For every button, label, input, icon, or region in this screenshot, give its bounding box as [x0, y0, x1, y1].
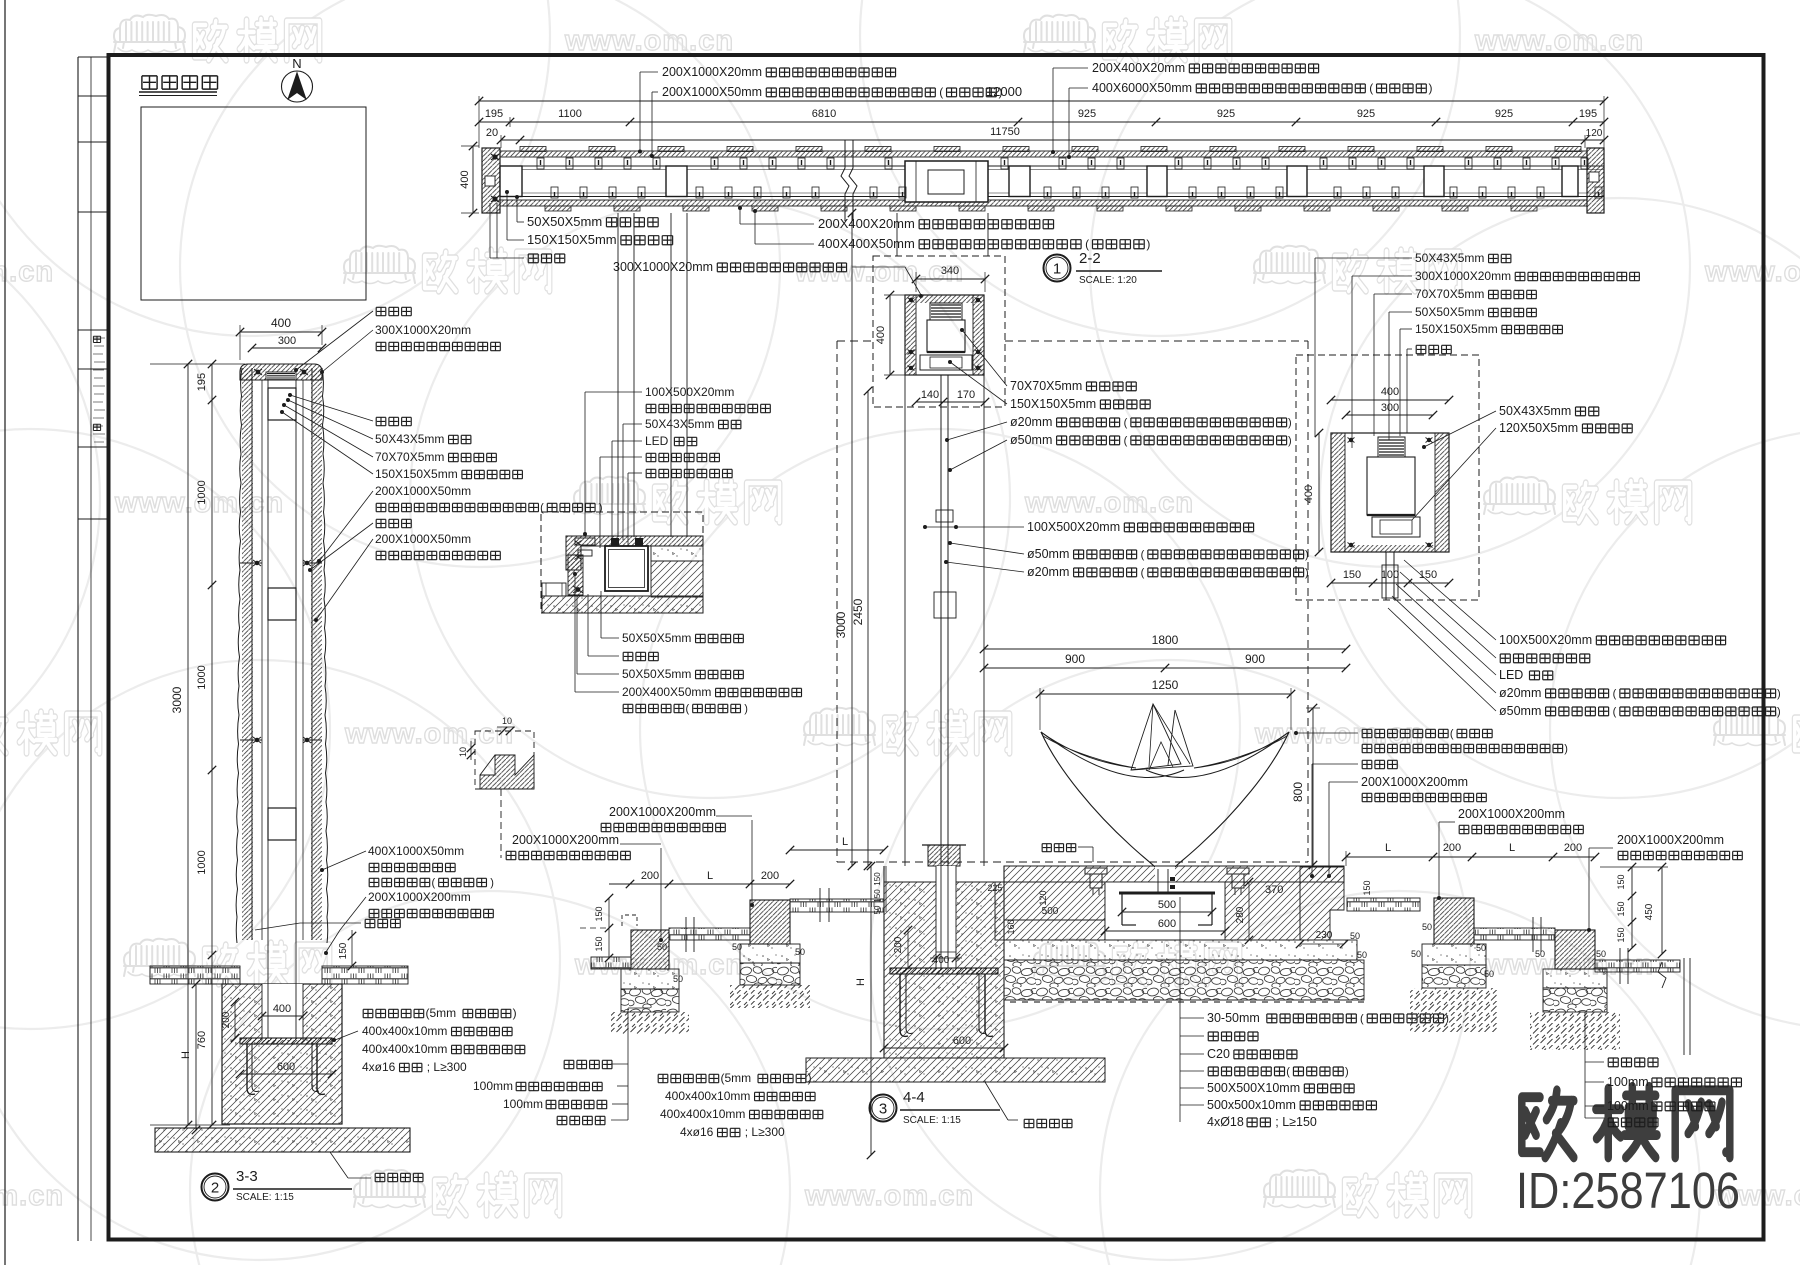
north arrow — [282, 71, 313, 102]
svg-text:160: 160 — [1006, 919, 1016, 934]
svg-text:(: ( — [1141, 567, 1145, 579]
label yumaijian — [1362, 760, 1397, 768]
svg-text:600: 600 — [953, 1035, 971, 1047]
svg-text:(: ( — [432, 877, 436, 889]
title suoyin pingmian — [142, 76, 218, 89]
dim 20 / 11750 / 120 — [501, 139, 1604, 141]
svg-text:LED: LED — [1499, 668, 1523, 682]
svg-text:300X1000X20mm: 300X1000X20mm — [1415, 269, 1511, 283]
svg-text:(: ( — [1124, 417, 1128, 429]
svg-text:150: 150 — [594, 906, 604, 921]
svg-text:150: 150 — [338, 942, 349, 959]
foundation bolts — [900, 974, 908, 1036]
svg-text:200X1000X200mm: 200X1000X200mm — [609, 805, 716, 819]
sculpture crane — [1131, 704, 1181, 770]
svg-text:400: 400 — [875, 326, 887, 344]
label 150X150X5mm below band — [506, 192, 508, 240]
wall lines from top band down to detail — [617, 213, 619, 537]
sculpture labels right — [1362, 729, 1448, 737]
wall band: anchor clips top row — [537, 158, 544, 169]
watermark logo r3k0 — [804, 708, 875, 746]
svg-text:200X1000X50mm: 200X1000X50mm — [375, 532, 471, 546]
svg-text:50: 50 — [673, 974, 683, 984]
svg-text:): ) — [999, 85, 1003, 99]
svg-text:300X1000X20mm: 300X1000X20mm — [613, 260, 713, 274]
watermark logo r1k1 — [1254, 246, 1325, 284]
svg-text:(: ( — [939, 85, 943, 99]
svg-text:150: 150 — [873, 872, 882, 886]
dim 340 — [916, 278, 985, 280]
right curbs dims 200/L/200 — [1346, 856, 1595, 858]
svg-text:2450: 2450 — [851, 598, 865, 625]
svg-text:(: ( — [686, 703, 690, 715]
right side label stack for column — [376, 307, 411, 315]
svg-text:(: ( — [1124, 435, 1128, 447]
svg-text:900: 900 — [1245, 652, 1265, 666]
svg-text:): ) — [1146, 237, 1150, 251]
svg-text:200X1000X200mm: 200X1000X200mm — [368, 890, 471, 904]
svg-text:200X1000X200mm: 200X1000X200mm — [512, 833, 619, 847]
watermark logo r3k1 — [1714, 708, 1785, 746]
joint detail dims — [497, 726, 515, 728]
svg-text:50: 50 — [1357, 950, 1367, 960]
title strip — [77, 57, 79, 1241]
detail concrete and stone right — [651, 546, 703, 561]
svg-text:(: ( — [1141, 549, 1145, 561]
svg-text:(5mm: (5mm — [426, 1006, 457, 1020]
svg-text:50X43X5mm: 50X43X5mm — [1415, 251, 1484, 265]
svg-text:www.om.cn: www.om.cn — [0, 256, 54, 288]
right detail pendant — [1385, 552, 1387, 600]
svg-text:150: 150 — [1616, 874, 1626, 889]
detail bolt left — [573, 586, 583, 593]
sculpture lotus — [1041, 732, 1136, 768]
svg-text:400: 400 — [1381, 386, 1399, 398]
svg-text:800: 800 — [1291, 782, 1305, 802]
svg-text:200X400X20mm: 200X400X20mm — [1092, 61, 1185, 75]
svg-text:925: 925 — [1217, 108, 1235, 120]
svg-text:150X150X5mm: 150X150X5mm — [375, 467, 458, 481]
svg-text:400: 400 — [933, 955, 950, 966]
svg-text:200X1000X200mm: 200X1000X200mm — [1361, 775, 1468, 789]
foundation dims — [936, 951, 956, 953]
terrace cobbles — [1004, 960, 1364, 1000]
planting soil label — [365, 919, 400, 927]
svg-text:www.om.cn: www.om.cn — [1704, 256, 1800, 288]
bubble 2 section 3-3 — [202, 1174, 229, 1201]
svg-text:50X43X5mm: 50X43X5mm — [375, 432, 444, 446]
right detail dims 400/300 — [1331, 399, 1449, 401]
cap lower tray — [920, 355, 972, 370]
cap inner box — [927, 320, 965, 352]
center foundation 4-4 — [884, 866, 1004, 1058]
svg-text:195: 195 — [1579, 108, 1597, 120]
label C20 — [1180, 1053, 1204, 1055]
svg-text:200X400X50mm: 200X400X50mm — [622, 685, 711, 699]
dim 1250 — [1040, 693, 1291, 695]
svg-text:3: 3 — [879, 1101, 887, 1118]
diku dingban label 4-4 — [985, 1082, 1008, 1120]
svg-text:100mm: 100mm — [1607, 1099, 1649, 1113]
svg-text:50: 50 — [732, 942, 742, 952]
svg-text:L: L — [707, 870, 713, 882]
column right rough stone strip — [311, 368, 313, 940]
svg-text:50: 50 — [1422, 922, 1432, 932]
wall band: right end cap — [1587, 148, 1604, 213]
svg-text:(: ( — [1613, 688, 1617, 700]
svg-text:): ) — [1777, 706, 1781, 718]
svg-text:150X150X5mm: 150X150X5mm — [1010, 397, 1096, 411]
svg-text:): ) — [1429, 81, 1433, 95]
svg-text:www.om.cn: www.om.cn — [344, 718, 514, 750]
terrace anchor pit — [1105, 882, 1225, 940]
ground paver bands beside column — [150, 966, 240, 984]
label 30-50mm — [1180, 1017, 1204, 1019]
svg-text:3000: 3000 — [170, 686, 184, 713]
svg-text:2: 2 — [211, 1180, 219, 1197]
right detail inner box — [1367, 457, 1415, 515]
svg-text:L: L — [1509, 842, 1515, 854]
detail leader fan — [584, 392, 586, 535]
right detail bottom leader fan — [1404, 560, 1496, 640]
svg-text:(: ( — [1613, 706, 1617, 718]
svg-text:230: 230 — [1316, 930, 1333, 941]
svg-text:11750: 11750 — [990, 126, 1020, 138]
svg-text:50: 50 — [1411, 949, 1421, 959]
mid curbs dims 200/L/200 — [609, 883, 790, 885]
dim 800 — [1312, 708, 1314, 865]
wall band: stone panel joints — [500, 166, 522, 197]
leader spine right — [1179, 897, 1181, 1122]
svg-text:): ) — [1288, 417, 1292, 429]
svg-text:ID:2587106: ID:2587106 — [1516, 1162, 1740, 1219]
mid paver between curbs — [669, 928, 750, 940]
svg-text:300X1000X20mm: 300X1000X20mm — [375, 323, 471, 337]
svg-text:200X1000X50mm: 200X1000X50mm — [375, 484, 471, 498]
svg-text:(: ( — [1450, 728, 1454, 740]
svg-text:760: 760 — [196, 1031, 208, 1049]
svg-text:925: 925 — [1078, 108, 1096, 120]
anchor base plate — [240, 1038, 332, 1044]
svg-text:200X1000X50mm: 200X1000X50mm — [662, 85, 762, 99]
svg-text:H: H — [180, 1051, 192, 1059]
svg-text:925: 925 — [1357, 108, 1375, 120]
center cap dashed box — [873, 256, 1005, 407]
svg-text:50X50X5mm: 50X50X5mm — [527, 214, 602, 229]
svg-text:www.om.cn: www.om.cn — [0, 1180, 64, 1212]
svg-text:(: ( — [1286, 1066, 1290, 1078]
svg-text:): ) — [1305, 567, 1309, 579]
terrace stone blocks — [995, 882, 1105, 940]
svg-text:400x400x10mm: 400x400x10mm — [665, 1089, 750, 1103]
svg-text:50X43X5mm: 50X43X5mm — [1499, 404, 1571, 418]
anchor J bolts — [247, 1044, 255, 1094]
svg-text:www.om.cn: www.om.cn — [1474, 25, 1644, 57]
mid curb block B — [750, 900, 790, 944]
svg-text:4xø16: 4xø16 — [362, 1060, 396, 1074]
svg-text:www.om.cn: www.om.cn — [564, 25, 734, 57]
svg-text:200: 200 — [1564, 842, 1582, 854]
svg-text:50X43X5mm: 50X43X5mm — [645, 417, 714, 431]
bottom slab 3-3 — [155, 1128, 410, 1152]
svg-text:50: 50 — [795, 947, 805, 957]
svg-text:400: 400 — [459, 170, 471, 188]
wall band: inner rails — [500, 165, 1604, 167]
label 400X6000X50mm top right — [1068, 88, 1070, 157]
H dim left — [195, 984, 197, 1130]
dims 400/300 over column — [240, 331, 322, 333]
index plan rectangle — [141, 107, 366, 300]
H dim center — [870, 866, 872, 1155]
label 50X50X5mm below band — [516, 196, 518, 222]
small level dims left of foundation — [885, 866, 887, 912]
watermark logo r2k0 — [574, 477, 645, 515]
diku dingban label — [375, 1173, 423, 1181]
stem into pit — [1157, 869, 1159, 893]
detail steel tube — [605, 546, 648, 591]
svg-text:70X70X5mm: 70X70X5mm — [375, 450, 444, 464]
right paver right — [1595, 960, 1680, 972]
center dims 3000/2450 — [851, 213, 853, 866]
svg-text:1000: 1000 — [196, 480, 208, 504]
svg-text:SCALE: 1:15: SCALE: 1:15 — [903, 1115, 961, 1126]
svg-text:925: 925 — [1495, 108, 1513, 120]
mid curb block A — [631, 930, 669, 969]
svg-text:400X400X50mm: 400X400X50mm — [818, 236, 915, 251]
detail bottom fixture left — [542, 583, 566, 596]
svg-text:400x400x10mm: 400x400x10mm — [660, 1107, 745, 1121]
pit dims — [1122, 911, 1212, 913]
svg-text:600: 600 — [277, 1061, 295, 1073]
right detail bottom hatch — [1345, 545, 1435, 552]
dashed drop from joint detail — [500, 789, 502, 858]
svg-text:140: 140 — [921, 389, 939, 401]
dim 1800 — [984, 648, 1346, 650]
watermark logo r2k1 — [1484, 477, 1555, 515]
wall band: center box cell — [905, 161, 988, 202]
big logo oumowang — [1522, 1087, 1730, 1158]
sculpture stem — [1157, 869, 1159, 893]
label steel support — [1180, 1070, 1204, 1072]
cap grill — [930, 303, 962, 320]
cap vert dim 400 — [889, 295, 891, 375]
svg-text:2-2: 2-2 — [1079, 250, 1101, 267]
watermark logo r5k0 — [354, 1170, 425, 1208]
svg-text:6810: 6810 — [812, 108, 836, 120]
wall band: left end cap — [482, 148, 500, 213]
svg-text:LED: LED — [645, 434, 669, 448]
bottom material labels mid — [564, 1060, 612, 1068]
right detail leader fan — [1315, 257, 1412, 259]
svg-text:3-3: 3-3 — [236, 1168, 258, 1185]
foundation dims — [262, 1015, 303, 1017]
svg-text:100X500X20mm: 100X500X20mm — [1027, 520, 1120, 534]
fixing labels bottom left — [363, 1009, 423, 1017]
label 500X500X10mm plate — [1180, 1087, 1204, 1089]
svg-text:100: 100 — [1381, 569, 1399, 581]
label 200X400X20mm below band — [739, 207, 741, 224]
dim row 195/1100/6810/925s — [479, 121, 1604, 123]
detail bottom slab — [542, 596, 703, 613]
svg-text:200: 200 — [1443, 842, 1461, 854]
pole below cap — [904, 375, 906, 866]
right curb block 1 — [1434, 898, 1474, 944]
svg-text:500X500X10mm: 500X500X10mm — [1207, 1081, 1300, 1095]
svg-text:10: 10 — [502, 716, 512, 726]
svg-text:): ) — [490, 877, 494, 889]
right detail box — [1331, 433, 1449, 552]
column left rough stone strip — [251, 368, 253, 940]
right detail grill — [1378, 437, 1405, 457]
label 200X1000X50mm top — [651, 92, 653, 156]
svg-text:150: 150 — [1616, 901, 1626, 916]
svg-text:150X150X5mm: 150X150X5mm — [1415, 322, 1498, 336]
detail left bracket parts — [575, 538, 595, 545]
svg-text:70X70X5mm: 70X70X5mm — [1415, 287, 1484, 301]
svg-text:10: 10 — [458, 747, 468, 757]
svg-text:50: 50 — [1476, 943, 1486, 953]
svg-text:150: 150 — [1362, 880, 1372, 895]
svg-text:50: 50 — [1535, 949, 1545, 959]
page trim line — [4, 0, 6, 1265]
bubble 1 section 2-2 — [1044, 255, 1071, 282]
svg-text:150X150X5mm: 150X150X5mm — [527, 232, 617, 247]
svg-text:150: 150 — [594, 936, 604, 951]
right curb block 2 — [1555, 930, 1595, 969]
svg-text:340: 340 — [941, 265, 959, 277]
svg-text:100X500X20mm: 100X500X20mm — [645, 385, 734, 399]
wall band: top rough stone strip — [500, 151, 1587, 157]
wall cap detail dashed box — [541, 512, 703, 613]
watermark logo r0k1 — [1024, 15, 1095, 53]
svg-text:195: 195 — [485, 108, 503, 120]
svg-text:50X50X5mm: 50X50X5mm — [1415, 305, 1484, 319]
svg-text:120X50X5mm: 120X50X5mm — [1499, 421, 1578, 435]
svg-text:(: ( — [1085, 237, 1089, 251]
svg-text:H: H — [855, 978, 867, 986]
wall left cap fixing marks — [491, 154, 499, 160]
svg-text:200: 200 — [221, 1011, 232, 1028]
svg-text:ø20mm: ø20mm — [1010, 415, 1052, 429]
svg-text:(: ( — [1360, 1013, 1364, 1025]
label 200X1000X20mm top — [639, 72, 641, 151]
joint detail dashed box — [475, 731, 534, 789]
wall band: break symbol — [841, 140, 849, 221]
svg-text:1800: 1800 — [1152, 633, 1179, 647]
svg-text:300: 300 — [1381, 402, 1399, 414]
svg-text:): ) — [1305, 549, 1309, 561]
column mid joints — [240, 562, 262, 564]
svg-text:1000: 1000 — [196, 665, 208, 689]
svg-text:(5mm: (5mm — [721, 1071, 752, 1085]
svg-text:170: 170 — [957, 389, 975, 401]
svg-text:4xØ18: 4xØ18 — [1207, 1115, 1244, 1129]
right detail dims 150/100/150 — [1331, 582, 1449, 584]
svg-text:1250: 1250 — [1152, 678, 1179, 692]
svg-text:50: 50 — [1350, 931, 1360, 941]
svg-text:200X1000X20mm: 200X1000X20mm — [662, 65, 762, 79]
svg-text:100X500X20mm: 100X500X20mm — [1499, 633, 1592, 647]
svg-text:): ) — [513, 1006, 517, 1020]
vert dim segments 195/1000s/760 — [211, 364, 213, 1125]
label 500x500x10mm plate2 — [1180, 1104, 1204, 1106]
detail cap slab — [566, 536, 703, 570]
svg-text:370: 370 — [1265, 884, 1283, 896]
svg-text:280: 280 — [1235, 906, 1246, 923]
right bottom material labels — [1584, 1012, 1586, 1118]
pole base plate — [928, 845, 960, 866]
lamp left — [1085, 868, 1107, 874]
detail clamps top — [611, 538, 619, 546]
big dashed region boundary — [837, 340, 873, 342]
svg-text:): ) — [1777, 688, 1781, 700]
svg-text:120: 120 — [1586, 128, 1603, 139]
wall band: anchor clips bottom row — [551, 187, 558, 198]
leaders for bottom labels — [600, 591, 602, 638]
svg-text:50: 50 — [1484, 969, 1494, 979]
svg-text:200X1000X200mm: 200X1000X200mm — [1458, 807, 1565, 821]
svg-text:300: 300 — [278, 335, 296, 347]
svg-text:120: 120 — [1038, 890, 1048, 905]
label 400X400X50mm below band — [754, 210, 756, 244]
svg-text:): ) — [808, 1071, 812, 1085]
svg-text:150: 150 — [1616, 927, 1626, 942]
bubble 3 section 4-4 — [870, 1095, 897, 1122]
svg-text:1000: 1000 — [196, 850, 208, 874]
label ganguajian below band — [489, 203, 491, 258]
150 dim right of column — [351, 930, 353, 966]
L dim right of curbs — [790, 849, 884, 851]
joint detail stone — [480, 755, 534, 789]
svg-text:195: 195 — [196, 373, 208, 391]
svg-text:ø50mm: ø50mm — [1499, 704, 1541, 718]
column inner faces — [261, 380, 263, 940]
cap corner bolts — [908, 298, 915, 303]
dims 140/170 — [916, 401, 985, 403]
label 100X500X20mm mid — [925, 526, 1024, 528]
svg-text:500x500x10mm: 500x500x10mm — [1207, 1098, 1296, 1112]
svg-text:450: 450 — [1644, 903, 1655, 920]
fixing labels mid — [658, 1074, 718, 1082]
dashed bracket above curb A — [622, 915, 637, 926]
watermark logo r4k1 — [1034, 939, 1105, 977]
svg-text:): ) — [1564, 743, 1568, 755]
terrace top slab — [1004, 866, 1344, 882]
svg-text:SCALE: 1:20: SCALE: 1:20 — [1079, 275, 1137, 286]
svg-text:200: 200 — [641, 870, 659, 882]
svg-text:): ) — [1345, 1066, 1349, 1078]
vert 400 dim at band left — [472, 146, 474, 213]
svg-text:400X1000X50mm: 400X1000X50mm — [368, 844, 464, 858]
svg-text:50: 50 — [1596, 949, 1606, 959]
watermark logo r1k0 — [344, 246, 415, 284]
svg-text:400: 400 — [1303, 485, 1315, 503]
svg-text:200: 200 — [761, 870, 779, 882]
svg-text:200X1000X200mm: 200X1000X200mm — [1617, 833, 1724, 847]
svg-text:400: 400 — [273, 1003, 291, 1015]
svg-text:www.om.cn: www.om.cn — [1024, 487, 1194, 519]
svg-text:100mm: 100mm — [473, 1079, 513, 1093]
svg-text:100mm: 100mm — [1607, 1075, 1649, 1089]
svg-text:): ) — [744, 703, 748, 715]
svg-text:www.om.cn: www.om.cn — [804, 1180, 974, 1212]
right paver mid — [1474, 928, 1555, 940]
svg-text:400: 400 — [271, 316, 291, 330]
label 200X400X20mm top right — [1052, 68, 1054, 152]
svg-text:3000: 3000 — [834, 611, 848, 638]
steel tube blocks on column — [268, 388, 296, 420]
foundation plate — [890, 968, 998, 974]
